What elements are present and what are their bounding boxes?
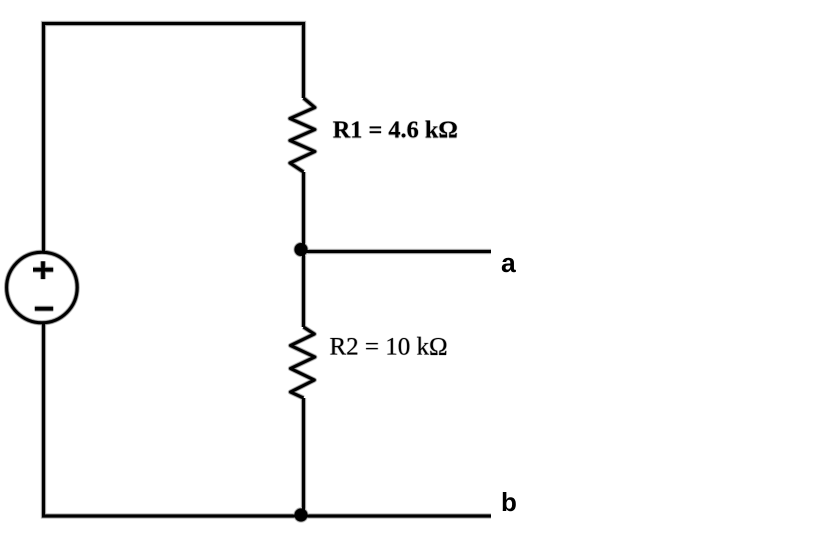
svg-text:a: a	[501, 248, 516, 278]
svg-text:b: b	[501, 487, 517, 517]
svg-text:R2 = 10 kΩ: R2 = 10 kΩ	[330, 334, 448, 361]
svg-text:R1 = 4.6 kΩ: R1 = 4.6 kΩ	[333, 117, 458, 144]
